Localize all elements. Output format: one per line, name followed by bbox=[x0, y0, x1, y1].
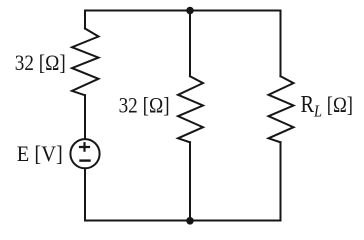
wire: left branch upper bbox=[84, 11, 86, 29]
svg-text:32 [Ω]: 32 [Ω] bbox=[119, 93, 170, 118]
wire: bottom rail bbox=[85, 220, 281, 222]
resistor R2 (middle 32 ohm) bbox=[178, 76, 203, 142]
voltage source E minus terminal bbox=[81, 159, 90, 161]
wire: top rail bbox=[85, 10, 281, 12]
voltage source E (circle) bbox=[70, 139, 99, 168]
wire: middle branch upper bbox=[189, 11, 191, 77]
resistor R1 (left 32 ohm) bbox=[72, 29, 99, 96]
wire: right branch lower bbox=[280, 142, 282, 220]
svg-text:32 [Ω]: 32 [Ω] bbox=[15, 50, 66, 75]
wire: left branch lower bbox=[84, 169, 86, 220]
wire: right branch upper bbox=[280, 11, 282, 77]
junction: top node bbox=[186, 7, 194, 15]
junction: bottom node bbox=[186, 217, 194, 225]
svg-text:E [V]: E [V] bbox=[17, 141, 63, 166]
resistor RL (load) bbox=[269, 76, 294, 142]
wire: left branch between R1 and source E bbox=[84, 95, 86, 138]
voltage source E plus terminal bbox=[80, 143, 89, 150]
wire: middle branch lower bbox=[189, 142, 191, 220]
svg-text:RL [Ω]: RL [Ω] bbox=[301, 92, 354, 121]
